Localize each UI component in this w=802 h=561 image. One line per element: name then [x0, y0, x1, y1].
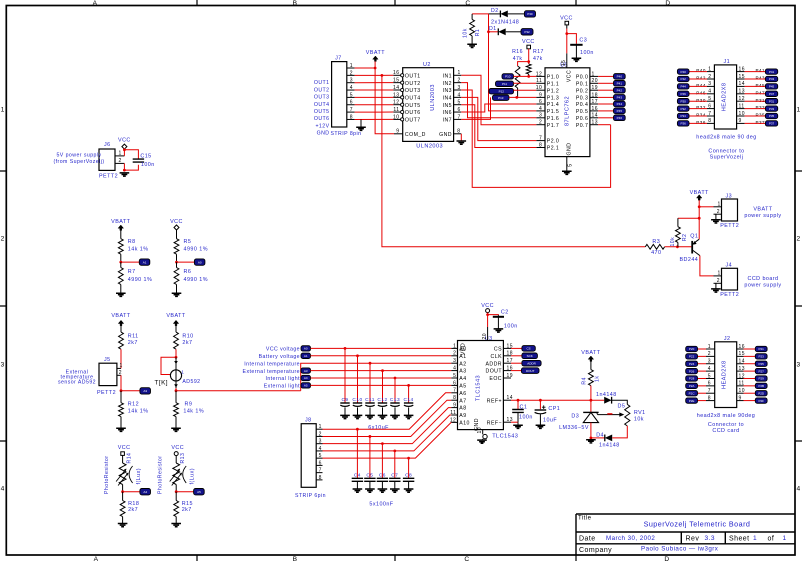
resistor R8: [118, 239, 123, 255]
svg-text:OUT6: OUT6: [405, 110, 421, 116]
svg-text:4: 4: [708, 366, 711, 372]
svg-text:4: 4: [458, 92, 461, 98]
svg-text:C1: C1: [520, 404, 528, 410]
wire REF- to C1: [511, 421, 518, 423]
connector J7: [332, 62, 347, 127]
svg-text:1: 1: [458, 70, 461, 76]
svg-text:J7: J7: [335, 56, 342, 62]
svg-text:100n: 100n: [141, 162, 155, 168]
U5 pins P2.0 P2.1: [536, 140, 545, 142]
wire VCC to J6 pin1 and C15: [123, 149, 125, 156]
svg-text:of: of: [768, 536, 775, 543]
VCC symbol at J6: [122, 144, 127, 149]
svg-text:2: 2: [119, 370, 122, 376]
svg-text:J5: J5: [104, 357, 111, 363]
J1 pin 10 right: [737, 115, 745, 117]
svg-text:P0.2: P0.2: [576, 88, 588, 94]
svg-text:P42: P42: [617, 88, 623, 92]
J2 pin 14 right: [737, 363, 744, 365]
svg-text:TLC1543: TLC1543: [492, 434, 518, 440]
svg-text:C8: C8: [405, 472, 412, 478]
J2 pin 15 right: [737, 355, 744, 357]
svg-text:470: 470: [651, 250, 661, 256]
svg-text:P40: P40: [617, 75, 623, 79]
tag A5: [194, 489, 205, 495]
svg-text:11: 11: [739, 103, 745, 109]
svg-text:10k: 10k: [634, 417, 644, 423]
U2 COM_D pin 9: [394, 133, 403, 135]
wire R15 to ground: [175, 517, 177, 524]
svg-text:8: 8: [453, 395, 456, 401]
svg-text:P43: P43: [769, 77, 775, 81]
svg-text:5: 5: [319, 453, 322, 459]
svg-text:OUT4: OUT4: [314, 102, 330, 108]
svg-text:VBATT: VBATT: [366, 50, 385, 56]
svg-text:P1.3: P1.3: [547, 96, 559, 102]
tag SDA at P1.0: [502, 74, 514, 79]
svg-text:6: 6: [319, 460, 322, 466]
svg-text:A5: A5: [459, 384, 466, 390]
svg-text:Q1: Q1: [690, 233, 698, 239]
svg-text:P22: P22: [689, 355, 695, 359]
svg-text:D: D: [664, 556, 669, 561]
J3 pin 2: [714, 213, 722, 215]
J1 pin 13 right: [737, 93, 745, 95]
VBATT symbol at R8: [118, 225, 123, 230]
svg-text:SuperVozelj Telemetric Board: SuperVozelj Telemetric Board: [644, 520, 751, 529]
ground at C13: [390, 415, 400, 418]
resistor R12: [120, 391, 122, 403]
svg-text:16: 16: [393, 70, 399, 76]
svg-text:P37: P37: [756, 120, 766, 125]
J2 pin 9 right: [737, 400, 744, 402]
svg-text:A3: A3: [459, 369, 466, 375]
VCC symbol at R13: [174, 452, 178, 456]
svg-text:15: 15: [393, 78, 399, 84]
wires J7 pins to ULN outputs: [355, 74, 394, 76]
capacitor C14: [408, 385, 410, 402]
svg-text:2: 2: [539, 120, 542, 126]
svg-text:P2A: P2A: [689, 384, 695, 388]
svg-text:ADDR: ADDR: [527, 361, 536, 365]
svg-text:5: 5: [708, 96, 711, 102]
svg-text:P25: P25: [759, 362, 765, 366]
frame zone ticks right: [795, 171, 802, 441]
svg-text:OUT3: OUT3: [405, 88, 421, 94]
ground at R9: [171, 428, 181, 431]
VCC symbol at R16 R17: [527, 45, 531, 49]
svg-text:19: 19: [507, 373, 513, 379]
svg-text:1n4148: 1n4148: [599, 442, 620, 448]
J6 pin 1: [115, 155, 124, 157]
svg-text:IN3: IN3: [443, 88, 452, 94]
svg-text:P35: P35: [756, 113, 766, 118]
svg-text:VCC: VCC: [118, 138, 131, 144]
ground at U3: [477, 440, 487, 443]
wire tag to P1.0: [514, 75, 537, 77]
svg-text:9: 9: [539, 92, 542, 98]
J1 pin 11 right: [737, 108, 745, 110]
svg-text:C15: C15: [140, 154, 151, 160]
svg-text:DOUT: DOUT: [526, 369, 535, 373]
svg-text:P47: P47: [756, 90, 766, 95]
svg-text:power supply: power supply: [744, 213, 781, 219]
capacitor CP1: [539, 400, 541, 409]
frame zone ticks top: [197, 0, 576, 6]
svg-text:CLK: CLK: [491, 354, 503, 360]
diode D5: [590, 399, 593, 402]
svg-text:+12V: +12V: [315, 123, 329, 129]
svg-text:P11: P11: [502, 82, 507, 86]
svg-text:A10: A10: [459, 421, 470, 427]
svg-text:3: 3: [708, 359, 711, 365]
svg-text:P1.0: P1.0: [547, 75, 559, 81]
svg-text:7: 7: [350, 107, 353, 113]
svg-text:OUT1: OUT1: [405, 73, 421, 79]
capacitor C13: [394, 378, 396, 403]
svg-text:20: 20: [592, 78, 598, 84]
svg-text:P0.7: P0.7: [576, 123, 588, 129]
svg-text:A0: A0: [198, 260, 202, 264]
svg-text:P31: P31: [769, 99, 775, 103]
svg-text:P30: P30: [527, 12, 533, 16]
svg-text:C9: C9: [341, 397, 348, 403]
svg-text:P0.3: P0.3: [576, 96, 588, 102]
svg-text:P2D: P2D: [758, 391, 765, 395]
svg-text:P1.4: P1.4: [547, 102, 559, 108]
U3 left pins A0-A10: [451, 347, 457, 349]
svg-text:OUT6: OUT6: [314, 116, 330, 122]
wire VBATT to R10: [175, 326, 177, 332]
svg-text:A1: A1: [143, 260, 147, 264]
svg-text:4: 4: [350, 85, 353, 91]
wire VBATT net to COM_D: [375, 68, 394, 134]
J2 pin 5 left: [706, 377, 715, 379]
ground at C5: [365, 489, 375, 492]
svg-text:D3: D3: [571, 414, 579, 420]
svg-text:5: 5: [708, 373, 711, 379]
connector J6: [99, 149, 115, 170]
wire tag to P1.2: [514, 89, 537, 91]
J1 pin 12 right: [737, 100, 745, 102]
svg-text:VBATT: VBATT: [753, 206, 772, 212]
ground at D3: [586, 440, 596, 443]
svg-text:2x1N4148: 2x1N4148: [491, 19, 519, 25]
svg-text:9: 9: [396, 129, 399, 135]
svg-text:P44: P44: [681, 85, 687, 89]
J1 pin 3 left: [707, 85, 714, 87]
J1 pin 7 left: [707, 115, 714, 117]
svg-text:U2: U2: [423, 62, 431, 68]
svg-text:R17: R17: [533, 49, 544, 55]
svg-text:External temperature: External temperature: [243, 369, 300, 375]
wire J7 pin1 to VBATT net: [355, 67, 376, 69]
svg-text:13: 13: [393, 92, 399, 98]
svg-text:2: 2: [119, 158, 122, 164]
resistor R11: [119, 332, 124, 349]
svg-text:47k: 47k: [533, 56, 543, 62]
ground at C2: [494, 329, 504, 332]
svg-text:20: 20: [482, 333, 488, 339]
resistor R4: [590, 361, 592, 369]
J8 pin 4: [316, 450, 322, 452]
svg-text:Internal light: Internal light: [265, 376, 300, 382]
svg-text:P31: P31: [756, 98, 766, 103]
svg-text:8: 8: [708, 395, 711, 401]
resistor R15: [175, 492, 177, 501]
svg-text:P42: P42: [696, 76, 706, 81]
svg-text:P23: P23: [759, 355, 765, 359]
svg-text:13: 13: [592, 120, 598, 126]
svg-text:1: 1: [708, 66, 711, 72]
svg-text:P46: P46: [617, 116, 623, 120]
VCC symbol at U3: [486, 309, 490, 313]
wire IN4 to P2.0: [461, 97, 536, 140]
wire R18 to ground: [122, 517, 124, 524]
svg-text:2k7: 2k7: [182, 507, 192, 513]
VBATT symbol at R10: [173, 320, 178, 325]
J1 pin 6 left: [707, 108, 714, 110]
svg-text:C5: C5: [366, 472, 373, 478]
svg-text:D: D: [665, 0, 670, 7]
ground at U2: [457, 141, 467, 144]
diode D4: [591, 437, 605, 439]
svg-text:IN6: IN6: [443, 110, 452, 116]
J1 pin 16 right: [737, 71, 745, 73]
svg-text:P45: P45: [756, 83, 766, 88]
tag at P1.2: [489, 89, 514, 94]
capacitor C3: [570, 44, 582, 46]
svg-text:P33: P33: [769, 107, 775, 111]
svg-text:OUT5: OUT5: [405, 103, 421, 109]
VCC symbol at U5: [565, 21, 569, 25]
svg-text:P2.1: P2.1: [547, 146, 559, 152]
svg-text:1: 1: [797, 107, 801, 114]
connector J2: [715, 342, 737, 408]
J5 pin 2: [117, 374, 121, 376]
svg-text:2: 2: [1, 236, 5, 243]
svg-text:EOC: EOC: [489, 376, 502, 382]
svg-text:OUT2: OUT2: [405, 81, 421, 87]
tag A0: [194, 259, 205, 265]
VBATT symbol at Q1: [697, 195, 702, 200]
wire IN6 to P1.4: [461, 104, 536, 112]
VBATT symbol at J7: [373, 56, 378, 61]
U2 right pins IN1-IN7: [454, 74, 462, 76]
svg-text:2: 2: [717, 278, 720, 284]
svg-text:PETT2: PETT2: [720, 223, 739, 229]
ground at C4: [353, 489, 363, 492]
J4 pin 1: [714, 275, 722, 277]
svg-text:8: 8: [457, 129, 460, 135]
svg-text:P36: P36: [696, 120, 706, 125]
wire VCC to U5 and C3: [566, 25, 568, 29]
svg-text:R6: R6: [184, 269, 192, 275]
svg-text:VCC: VCC: [171, 445, 184, 451]
svg-text:4: 4: [797, 486, 801, 493]
long VBATT wire to R3: [381, 74, 384, 77]
IC U5 87LPC762: [545, 68, 590, 157]
svg-text:OUT4: OUT4: [405, 95, 421, 101]
photoresistor R14: [122, 456, 124, 464]
wire diode junction down to P1.5: [489, 32, 537, 111]
U3 REF+ pin 14: [503, 399, 511, 401]
wire A0 to ADC: [311, 347, 452, 349]
svg-text:R11: R11: [128, 333, 139, 339]
svg-text:R12: R12: [128, 402, 139, 408]
svg-text:2: 2: [453, 351, 456, 357]
diode D2: [489, 13, 501, 15]
resistor R17: [526, 64, 531, 74]
J2 pin 16 right: [737, 348, 744, 350]
svg-text:11: 11: [536, 78, 542, 84]
svg-text:R16: R16: [512, 49, 523, 55]
svg-text:J6: J6: [104, 142, 111, 148]
ground at CP1: [536, 425, 546, 428]
svg-text:f(Lux): f(Lux): [136, 468, 142, 484]
svg-text:5V power supply: 5V power supply: [56, 153, 101, 159]
svg-text:1: 1: [718, 201, 721, 207]
resistor R6: [176, 262, 178, 267]
svg-text:A7: A7: [459, 398, 466, 404]
svg-text:OUT2: OUT2: [314, 87, 330, 93]
svg-text:A: A: [93, 0, 98, 7]
node wire to tag A3 at J5: [121, 390, 140, 392]
svg-text:OUT7: OUT7: [405, 118, 421, 124]
resistor R1: [472, 13, 488, 15]
svg-text:CCD card: CCD card: [712, 428, 739, 434]
svg-text:P43: P43: [617, 96, 623, 100]
ground at C12: [378, 415, 388, 418]
J2 pin 11 right: [737, 385, 744, 387]
svg-text:2: 2: [458, 78, 461, 84]
svg-text:VCC: VCC: [560, 15, 573, 21]
svg-text:LM336−5V: LM336−5V: [559, 425, 589, 431]
U5 VCC pin 15: [566, 53, 568, 68]
svg-text:A4: A4: [304, 376, 308, 380]
svg-text:5x100nF: 5x100nF: [369, 502, 393, 508]
svg-text:6x10uF: 6x10uF: [368, 425, 389, 431]
svg-text:2: 2: [717, 209, 720, 215]
svg-text:VBATT: VBATT: [690, 190, 709, 196]
svg-text:4990 1%: 4990 1%: [128, 277, 152, 283]
resistor R2: [678, 217, 699, 219]
svg-text:P40: P40: [681, 70, 687, 74]
svg-text:C14: C14: [404, 397, 414, 403]
svg-text:P0.4: P0.4: [576, 102, 588, 108]
RV1 wiper arrow: [598, 414, 622, 416]
tag A3 at J5: [140, 388, 151, 394]
tag A0 at ADC: [301, 346, 311, 351]
wire IN1 to P1.7: [461, 75, 536, 124]
connector J4: [722, 268, 738, 290]
svg-text:REF+: REF+: [487, 398, 502, 404]
svg-text:R4: R4: [581, 377, 587, 385]
ground at R6: [172, 293, 182, 296]
svg-text:IN5: IN5: [443, 103, 452, 109]
svg-text:TLC1543: TLC1543: [476, 375, 482, 401]
svg-text:14k 1%: 14k 1%: [128, 408, 149, 414]
svg-text:OUT5: OUT5: [314, 109, 330, 115]
ground at C1: [513, 425, 523, 428]
svg-text:1: 1: [453, 343, 456, 349]
IC U2 ULN2003: [403, 68, 454, 142]
U2 GND pin 8: [454, 133, 462, 135]
capacitor C1: [517, 400, 519, 409]
svg-text:R2: R2: [682, 234, 688, 242]
svg-text:P21: P21: [759, 347, 765, 351]
svg-text:P1.7: P1.7: [547, 123, 559, 129]
U5 right pins P0.x: [590, 75, 598, 77]
svg-text:C: C: [465, 0, 470, 7]
svg-text:C12: C12: [377, 397, 387, 403]
svg-text:A3: A3: [143, 389, 147, 393]
svg-text:1: 1: [783, 535, 787, 542]
svg-text:1: 1: [753, 535, 757, 542]
svg-text:P0.1: P0.1: [576, 81, 588, 87]
svg-text:R13: R13: [180, 453, 186, 464]
wire R10 to sensor: [175, 349, 177, 357]
svg-text:R15: R15: [182, 501, 193, 507]
connector J3: [722, 199, 738, 221]
svg-text:4: 4: [1, 486, 5, 493]
svg-text:head2x8 male 90deg: head2x8 male 90deg: [697, 413, 755, 419]
svg-text:1n4148: 1n4148: [596, 392, 617, 398]
svg-text:3: 3: [539, 113, 542, 119]
wire R11 to J5 pin1: [120, 349, 122, 368]
ground at C8: [404, 489, 414, 492]
arc f(Lux) at R14: [129, 466, 133, 483]
wire VBATT to J3 pin1: [699, 206, 713, 208]
wire internal temperature to ADC A2: [301, 363, 452, 391]
svg-text:PETT2: PETT2: [99, 173, 118, 179]
svg-text:C7: C7: [391, 472, 398, 478]
svg-text:VCC: VCC: [522, 39, 535, 45]
svg-text:P32: P32: [696, 105, 706, 110]
svg-text:J8: J8: [305, 418, 312, 424]
svg-text:PhotoResistor: PhotoResistor: [158, 456, 164, 494]
capacitor C15: [133, 159, 144, 162]
svg-text:8: 8: [708, 118, 711, 124]
svg-text:P30: P30: [696, 98, 706, 103]
svg-text:P2B: P2B: [758, 384, 764, 388]
svg-text:R1: R1: [475, 29, 481, 37]
svg-text:P0.5: P0.5: [576, 109, 588, 115]
svg-text:5: 5: [453, 373, 456, 379]
wire R9 to ground: [175, 417, 177, 429]
svg-text:P30: P30: [681, 99, 687, 103]
J8 wires to ADC A6-A10: [323, 393, 452, 429]
capacitor C6: [381, 444, 383, 479]
svg-text:D1: D1: [489, 26, 497, 32]
tag A4: [140, 489, 151, 495]
resistor R5: [174, 239, 179, 255]
J2 pin 12 right: [737, 377, 744, 379]
U2 left pins OUT1-OUT7: [393, 74, 401, 76]
wire A3 to ADC: [311, 370, 452, 372]
ground at J6: [120, 173, 130, 176]
svg-text:6: 6: [453, 380, 456, 386]
svg-text:ULN2003: ULN2003: [416, 144, 443, 150]
svg-text:3: 3: [458, 85, 461, 91]
svg-text:P2.0: P2.0: [547, 139, 559, 145]
svg-text:1: 1: [350, 63, 353, 69]
wire tag to P1.3: [509, 96, 536, 98]
U3 GND pin 10: [482, 430, 484, 435]
tap wire to tag at R13: [176, 491, 193, 493]
svg-text:GND: GND: [566, 143, 572, 156]
svg-text:3: 3: [350, 78, 353, 84]
